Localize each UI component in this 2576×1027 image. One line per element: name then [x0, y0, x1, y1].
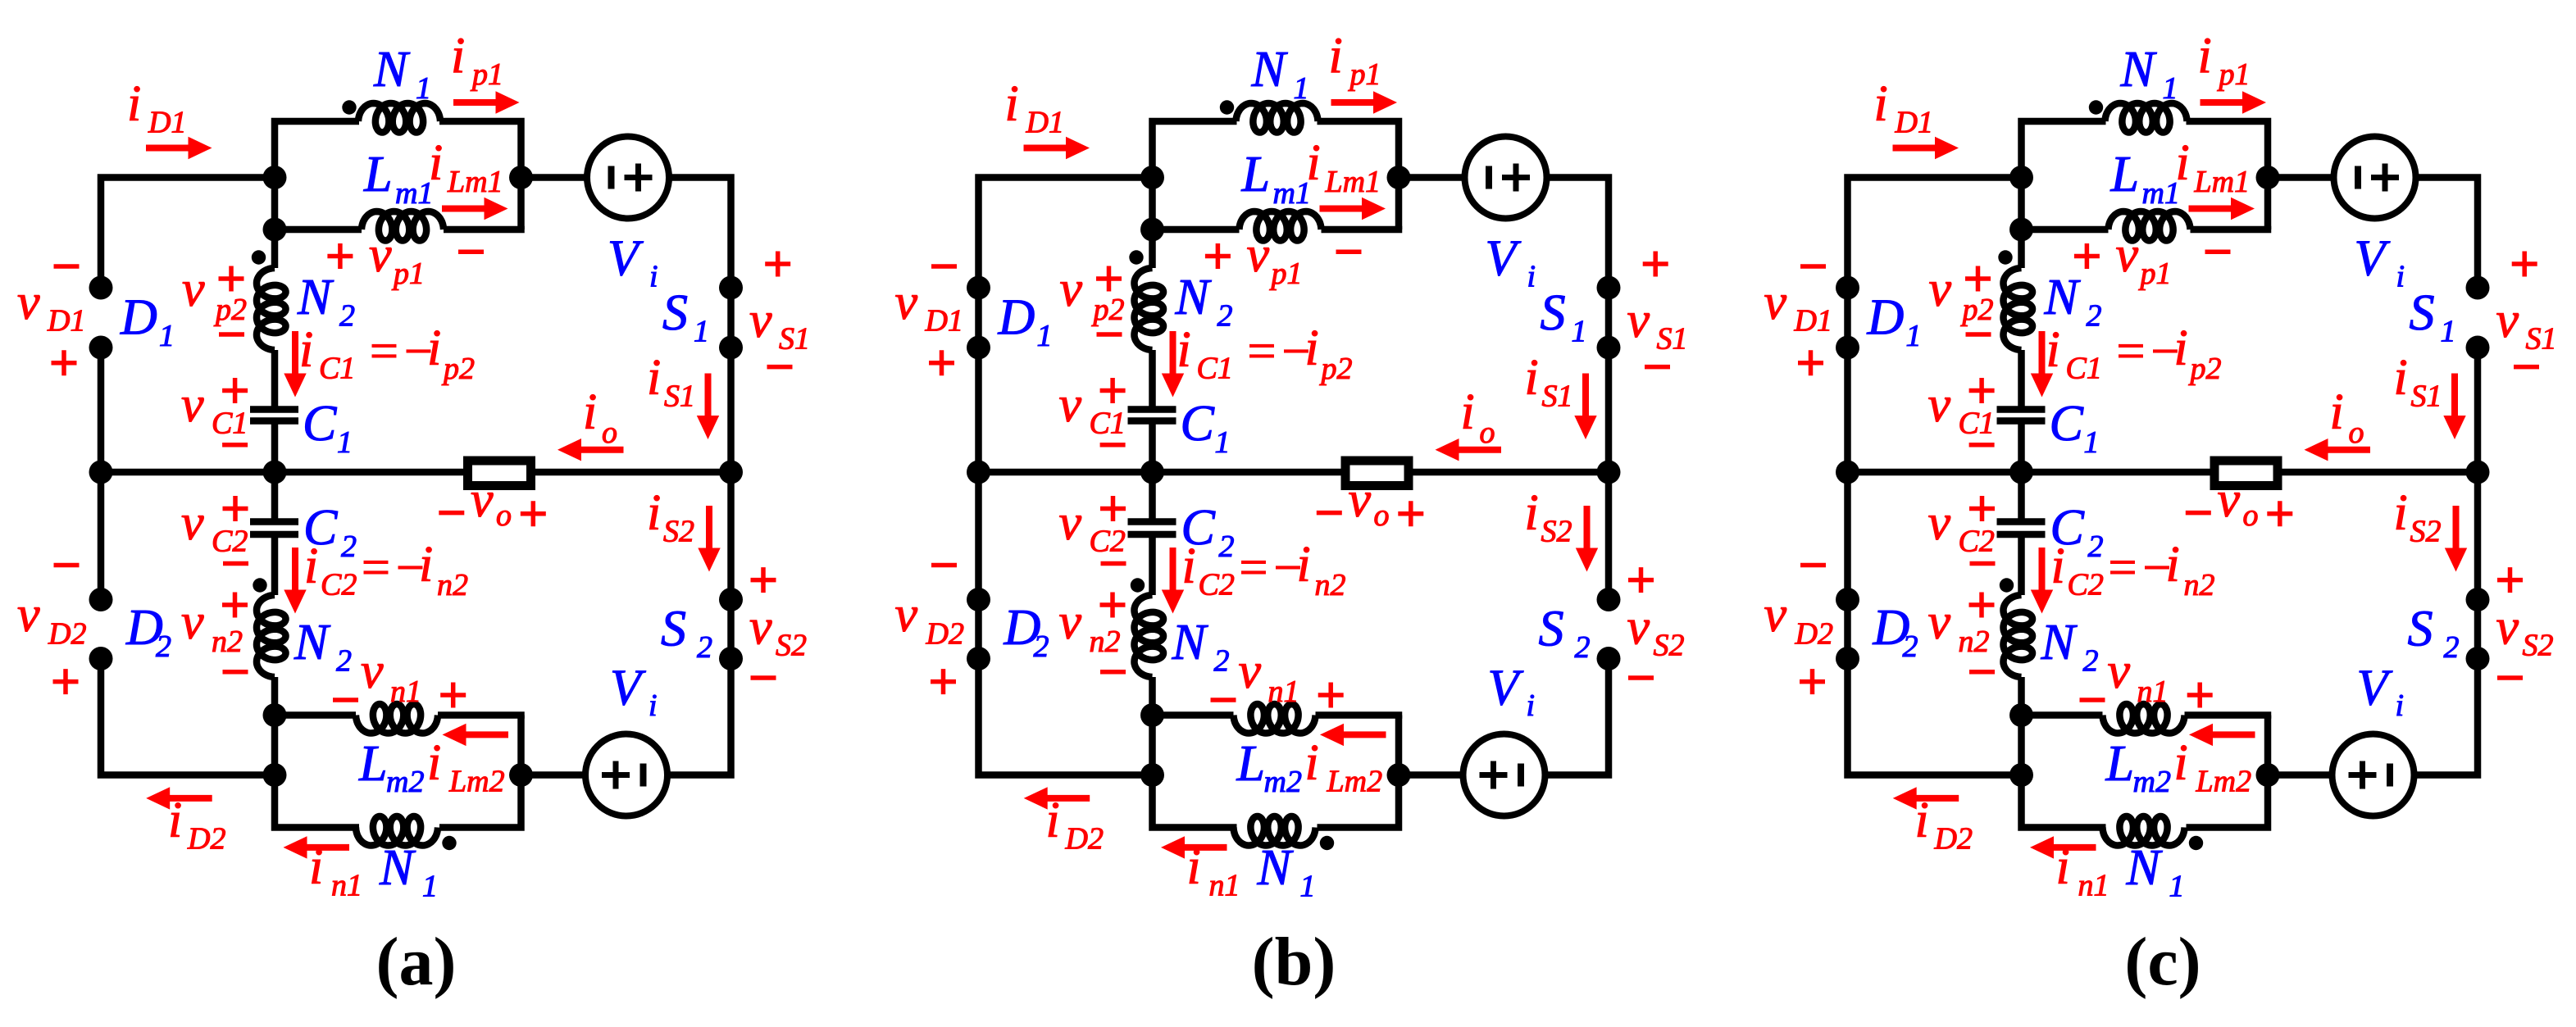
switch S2 closed (conducting) wire, panel (a)	[727, 600, 735, 659]
circuit panel (c): topology with D1, D2, S2 conducting; S1 open	[1764, 29, 2557, 904]
switch S1 closed (conducting) wire, panel (a)	[727, 288, 735, 348]
diode D2 closed (conducting) wire, panel (c)	[1844, 600, 1851, 659]
diode D1 closed (conducting) wire, panel (b)	[975, 288, 982, 348]
circuit panel (b): topology with D1, D2, S1 conducting; S2 open	[895, 29, 1688, 904]
svg-text:(c): (c)	[2124, 924, 2201, 1000]
svg-text:(a): (a)	[376, 924, 457, 1000]
switch S1 closed (conducting) wire, panel (b)	[1605, 288, 1613, 348]
diode D1 closed (conducting) wire, panel (c)	[1844, 288, 1851, 348]
diode D2 closed (conducting) wire, panel (b)	[975, 600, 982, 659]
circuit panel (a): topology with D1, D2 open; S1, S2 conducting	[17, 29, 810, 904]
svg-text:(b): (b)	[1252, 924, 1336, 1000]
switch S2 closed (conducting) wire, panel (c)	[2474, 600, 2482, 659]
